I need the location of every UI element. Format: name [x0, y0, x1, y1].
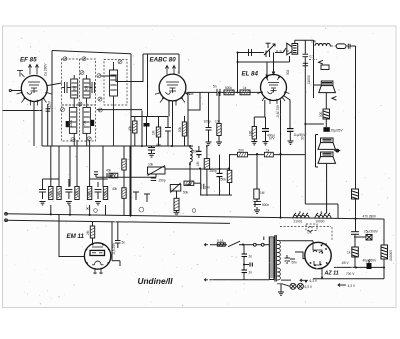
svg-text:6,3 V: 6,3 V	[310, 279, 318, 283]
svg-text:470 280V: 470 280V	[363, 214, 378, 218]
svg-text:10k: 10k	[148, 163, 154, 167]
svg-text:500: 500	[319, 111, 323, 117]
svg-text:40µ/550V: 40µ/550V	[363, 258, 378, 262]
svg-text:50n: 50n	[292, 261, 298, 265]
svg-text:40k: 40k	[112, 187, 118, 191]
svg-text:25µ/300V: 25µ/300V	[364, 229, 379, 233]
svg-text:25µ/25V: 25µ/25V	[331, 128, 344, 132]
svg-text:-65 V: -65 V	[341, 261, 349, 265]
svg-text:7-11,5V: 7-11,5V	[48, 100, 52, 112]
svg-text:100p: 100p	[204, 120, 211, 124]
svg-text:5n: 5n	[213, 85, 217, 89]
svg-text:50k: 50k	[178, 126, 182, 132]
svg-text:EL 84: EL 84	[242, 71, 259, 78]
svg-text:1M: 1M	[152, 130, 156, 135]
svg-text:2n: 2n	[249, 271, 253, 275]
svg-text:a: a	[321, 210, 323, 214]
svg-text:Ca 280V: Ca 280V	[44, 63, 48, 76]
svg-text:10k: 10k	[311, 40, 317, 44]
svg-text:250p: 250p	[210, 169, 217, 173]
svg-text:6,3 V: 6,3 V	[305, 285, 313, 289]
svg-text:EF 85: EF 85	[20, 57, 37, 64]
svg-text:10k: 10k	[215, 120, 221, 124]
svg-text:2M: 2M	[86, 230, 90, 235]
svg-text:500k: 500k	[225, 86, 232, 90]
svg-text:40k: 40k	[128, 125, 132, 131]
svg-text:1k: 1k	[243, 86, 247, 90]
svg-text:1M: 1M	[260, 191, 265, 195]
svg-text:250p: 250p	[159, 179, 166, 183]
svg-text:10n: 10n	[205, 186, 211, 190]
svg-text:21001: 21001	[294, 219, 303, 223]
svg-text:40k: 40k	[106, 169, 112, 173]
svg-text:EM 11: EM 11	[67, 233, 85, 240]
svg-text:302: 302	[286, 69, 290, 75]
svg-text:AZ 11: AZ 11	[324, 270, 339, 276]
svg-text:30: 30	[301, 136, 305, 140]
svg-text:400: 400	[85, 85, 89, 91]
svg-text:11µ/30V: 11µ/30V	[294, 133, 307, 137]
svg-text:-0,5-25V: -0,5-25V	[112, 242, 116, 255]
svg-text:300: 300	[73, 85, 77, 91]
svg-text:1k: 1k	[347, 251, 351, 255]
svg-text:11000: 11000	[307, 75, 311, 84]
svg-text:700: 700	[83, 120, 87, 126]
svg-text:0,1: 0,1	[310, 55, 315, 59]
svg-text:1000: 1000	[69, 120, 73, 127]
svg-text:10000: 10000	[316, 220, 325, 224]
svg-text:4,3 V: 4,3 V	[348, 284, 356, 288]
svg-text:500: 500	[239, 149, 245, 153]
svg-text:130: 130	[249, 130, 253, 136]
svg-text:0,1A: 0,1A	[217, 239, 224, 243]
svg-text:5n: 5n	[122, 241, 126, 245]
svg-text:~: ~	[197, 263, 199, 267]
svg-text:2n: 2n	[249, 255, 253, 259]
svg-text:67V: 67V	[269, 137, 276, 141]
svg-text:500n: 500n	[262, 203, 269, 207]
svg-text:50k: 50k	[183, 191, 189, 195]
svg-text:15k: 15k	[189, 92, 195, 96]
svg-text:-0,6/-70V: -0,6/-70V	[276, 104, 280, 118]
svg-text:Undine/II: Undine/II	[138, 276, 174, 286]
svg-text:1k: 1k	[266, 149, 270, 153]
svg-text:250k: 250k	[219, 177, 226, 181]
svg-text:500: 500	[193, 150, 199, 154]
svg-text:a: a	[299, 210, 301, 214]
svg-text:40n: 40n	[156, 143, 162, 147]
svg-text:EABC 80: EABC 80	[150, 57, 177, 64]
svg-text:100000: 100000	[389, 250, 393, 261]
